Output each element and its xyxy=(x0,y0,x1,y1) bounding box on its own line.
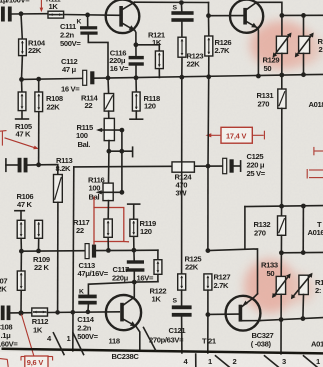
label R108 22K xyxy=(46,94,63,112)
wire pot column 206-253 xyxy=(302,206,304,253)
red pencil arrow to node xyxy=(5,138,39,150)
transistor T2 (NPN, top right) xyxy=(230,0,263,76)
node rail312/terminal line xyxy=(71,310,76,315)
resistor R113 8.2K (diagonal box) xyxy=(54,175,63,313)
connector slot number 1 (far right) xyxy=(316,357,321,366)
node C110/R108/R113 xyxy=(36,162,41,167)
label R104 22K xyxy=(28,39,46,56)
resistor R114 22 (diagonal box) xyxy=(104,78,113,119)
node T2 emitter on rail78 xyxy=(256,74,261,79)
label R113 8.2K xyxy=(56,156,73,173)
label R105 47K xyxy=(15,122,33,139)
node collector/R133 xyxy=(279,317,284,322)
wire collector node y282 xyxy=(88,282,157,295)
resistor R122 1K xyxy=(154,260,162,282)
potentiometer R130 (right, partly clipped labels) xyxy=(295,15,314,74)
label T118 xyxy=(109,337,120,346)
label C108 values clipped at edge xyxy=(0,323,18,349)
node rail/R104 xyxy=(19,77,24,82)
pin label S (top cap) xyxy=(173,5,178,12)
connector slot number 3 xyxy=(282,357,286,366)
red fragment bottom left corner xyxy=(0,359,8,367)
label R122 1K xyxy=(150,287,167,304)
wire T2 collector top rail xyxy=(257,2,282,15)
wire branch y250 R127-column to emitter column xyxy=(208,249,258,294)
capacitor C108 (left edge, y313) xyxy=(1,306,32,321)
capacitor C115 220u 16V (S) xyxy=(171,3,193,38)
resistor R107 22K (label clipped) xyxy=(17,251,25,313)
label C112 47u 16V= xyxy=(61,57,80,94)
clipped label R111 top edge xyxy=(46,0,61,4)
resistor R132 270 (diagonal box) xyxy=(278,206,286,253)
red measurement callout 17.4V xyxy=(206,127,265,143)
wire top rail y15.4 to edge xyxy=(282,14,323,16)
node wiper bus y151 xyxy=(119,149,124,154)
resistor R105 47K with open terminal xyxy=(16,79,29,119)
connector slot number 4 (right) xyxy=(184,357,189,366)
resistor R131 270 (diagonal box) xyxy=(278,75,286,206)
resistor R123 22K xyxy=(178,37,186,77)
capacitor C110 (left edge, y165) with open terminal xyxy=(6,158,39,173)
resistor R127 2.7K xyxy=(204,274,212,315)
node base rail T2 xyxy=(206,13,211,18)
slot diagonal xyxy=(73,333,84,355)
node rail78/R123 xyxy=(179,75,184,80)
wire R115 bottom to node xyxy=(108,141,110,152)
label C125 220u 25V= xyxy=(247,152,266,178)
capacitor C114 2.2n 500V xyxy=(78,295,96,312)
wire rail y167 from terminal column to C125 xyxy=(74,165,223,168)
slot diagonal xyxy=(216,356,230,367)
node rail78/R126 xyxy=(206,74,211,79)
node rail/R108 xyxy=(36,77,41,82)
node rail251/R107 xyxy=(19,249,24,254)
node rail78/R130 xyxy=(301,72,306,77)
node rail78/R129 xyxy=(279,73,284,78)
label R112 1K xyxy=(32,317,48,335)
label C114 2.2n 500V= xyxy=(77,315,98,341)
capacitor C111 2.2n 500V xyxy=(80,15,108,78)
wire rail251 corner into R122 xyxy=(157,250,159,260)
pin label K (C114) xyxy=(79,289,84,296)
label R109 22K xyxy=(33,255,50,272)
resistor R108 22K xyxy=(35,79,43,165)
value label C111 2.2n 500V= xyxy=(60,22,81,48)
label R129 50 xyxy=(263,56,280,73)
resistor R117 22 xyxy=(104,201,112,251)
wire T21 collector rail to right edge xyxy=(260,318,323,321)
node C117/collector xyxy=(132,280,137,285)
wire corner rail206 down to y249 xyxy=(244,207,246,249)
wire base to T21 xyxy=(208,313,239,315)
slot diagonal xyxy=(53,333,64,355)
resistor R118 120 xyxy=(130,78,143,119)
label R131 270 xyxy=(257,91,275,108)
node rail2.5/S-cap xyxy=(179,0,184,5)
wire node down to R116 xyxy=(108,151,110,183)
wire 1K to T1 base xyxy=(64,14,120,17)
wire collector rail corner to R126 xyxy=(208,3,210,16)
slot diagonal xyxy=(304,356,318,367)
label A018 (right edge) xyxy=(309,100,323,109)
node y253/pot column xyxy=(301,250,306,255)
connector slot number 2 xyxy=(233,357,237,366)
label R118 120 xyxy=(144,94,160,111)
label R124 470 3W xyxy=(175,173,193,198)
node rail312/C114 xyxy=(86,310,91,315)
node y253/R133 xyxy=(279,250,284,255)
capacitor C117 220u 16V xyxy=(126,250,145,282)
node top rail/pot R130 xyxy=(301,13,306,18)
node T1 emitter junction xyxy=(134,42,139,47)
resistor R124 470 3W (horizontal box in rail) xyxy=(172,162,194,172)
red pencil rectangle around R117 xyxy=(94,197,129,245)
connector slot number 1 (left) xyxy=(67,334,72,343)
label R127 2.7K xyxy=(214,273,231,290)
resistor R125 22K xyxy=(178,172,186,290)
label R123 22K xyxy=(187,52,204,69)
resistor R121 1K xyxy=(155,51,163,77)
wire R133 column to connector 3 xyxy=(280,320,282,354)
wire base rail to T2 xyxy=(209,15,244,17)
capacitor C125 220u 25V with open terminal xyxy=(223,158,241,173)
potentiometer R134 (right, label clipped) xyxy=(291,273,313,318)
node R116 wiper xyxy=(120,190,125,195)
node rail/R114 xyxy=(106,76,111,81)
red callout fragment right edge y173 (box edge) xyxy=(307,169,323,179)
node collector/R134 xyxy=(301,316,306,321)
node R115 wiper xyxy=(120,128,125,133)
transistor T21 BC327 (PNP, bottom right) xyxy=(226,294,261,331)
label R133 50 xyxy=(261,261,278,278)
label C117 220u 16V= xyxy=(112,265,154,282)
label T / A016 right edge xyxy=(308,220,323,237)
connector slot number 1 (right) xyxy=(208,357,213,366)
red annotation arrow pointing down at input wire xyxy=(40,0,44,12)
potentiometer R129 50 (trimmer with arrow) xyxy=(273,15,292,75)
wire long column to bottom connector 1 xyxy=(73,167,74,351)
red measurement box 9.6V xyxy=(21,356,53,367)
resistor R119 120 with open terminal xyxy=(128,204,140,250)
board frame bottom edge xyxy=(2,349,323,354)
red callout fragment right edge y151 xyxy=(314,147,323,155)
capacitor C116 220u 16V xyxy=(129,45,144,78)
wire middle column y15-y314 xyxy=(207,77,210,251)
transistor T1 (NPN, top left) xyxy=(106,0,140,45)
label C113 47u/16V= xyxy=(78,261,109,278)
node rail206/pot column xyxy=(301,204,306,209)
wire emitter node to R121 xyxy=(136,45,159,51)
wire wiper bus down xyxy=(121,130,123,192)
pin label K (C111) xyxy=(77,18,82,25)
node C108/R110 (red marked) xyxy=(18,310,23,315)
node rail251/R119-C117 xyxy=(132,248,137,253)
slot diagonal at T118 emitter xyxy=(144,328,156,351)
wire node to terminal y151 xyxy=(109,147,133,156)
slot tick xyxy=(195,354,197,367)
label R126 2.7K xyxy=(215,38,232,55)
node collector rail/R129 xyxy=(280,13,285,18)
label R132 270 xyxy=(254,220,271,237)
label R117 22 xyxy=(73,218,89,235)
node rail312/R113 xyxy=(55,310,60,315)
wire main emitter rail y78 xyxy=(22,74,323,79)
wire R123 column down to R124 xyxy=(181,77,183,162)
label BC327 (-038) xyxy=(251,331,274,348)
pink highlighter smudge over R129 xyxy=(250,21,323,69)
node rail206/R132 xyxy=(279,204,284,209)
label R130 clipped xyxy=(318,37,323,54)
capacitor C113 47u 16V (in rail 251) xyxy=(85,244,96,259)
node rail167/middle column xyxy=(206,164,211,169)
slot diagonal xyxy=(265,356,279,367)
capacitor C109 input coupling (left edge, top) xyxy=(1,7,48,22)
wire rail y251 xyxy=(21,250,158,251)
resistor R104 22K xyxy=(19,14,27,80)
label R134 clipped xyxy=(315,278,323,295)
resistor R112 1K (horizontal box) xyxy=(32,308,48,316)
red pencil line from node to 9.6V box xyxy=(22,315,34,356)
capacitor C121 270p 63V xyxy=(172,290,192,353)
resistor R111 1K (horizontal box) xyxy=(48,11,64,18)
resistor R109 22K xyxy=(35,220,43,251)
label R115 100 Bal. xyxy=(76,123,94,149)
wire y253 to right edge xyxy=(281,251,323,253)
value label 1K xyxy=(49,2,59,11)
node rail251/R109 xyxy=(36,249,41,254)
node base T21/middle column xyxy=(206,312,211,317)
node rail251/R117 xyxy=(106,248,111,253)
pin label S (C121) xyxy=(173,298,178,305)
node rail/C116-R118 xyxy=(134,75,139,80)
wire middle column to connector 1 xyxy=(207,315,209,353)
node branch/R127 column xyxy=(206,248,211,253)
label R107 22K clipped at edge xyxy=(0,277,7,294)
label R116 100 Bal xyxy=(88,176,104,202)
potentiometer R115 100 Bal xyxy=(96,118,122,140)
resistor R126 2.7K xyxy=(205,16,213,77)
label R119 120 xyxy=(140,219,156,236)
label BC238C below frame xyxy=(112,352,140,361)
potentiometer R116 100 Bal xyxy=(96,183,122,201)
pink highlighter smudge over R133 xyxy=(244,259,315,313)
label R114 22 xyxy=(81,94,98,111)
label R125 22K xyxy=(185,255,203,272)
transistor T118 BC238C (NPN, bottom left) xyxy=(106,282,141,351)
clipped label 1u/100V= top edge xyxy=(0,0,30,4)
node mid chain y151 xyxy=(107,149,112,154)
resistor R106 47K with open terminal xyxy=(15,211,25,252)
red pencil bracket left edge xyxy=(0,131,7,146)
node base T1 / C111 junction xyxy=(85,13,90,18)
capacitor C112 47u 16V (in rail) xyxy=(83,70,95,85)
potentiometer R133 50 xyxy=(272,253,291,319)
label T 21 xyxy=(202,337,217,346)
label R106 47K xyxy=(17,192,34,209)
node A (junction top-left) xyxy=(19,11,24,16)
wire T1 collector rail to S-cap corner xyxy=(134,1,208,3)
label C116 220u 16V= xyxy=(109,49,129,73)
wire node to R113 xyxy=(39,165,58,175)
connector slot number 4 (left) xyxy=(47,334,52,343)
wire base rail y312 xyxy=(48,311,120,314)
label R121 1K xyxy=(148,31,166,48)
wire rail206 right section xyxy=(245,206,323,207)
label A01 fragment bottom right edge xyxy=(311,340,323,349)
label C121 270p/63V= xyxy=(149,326,186,345)
